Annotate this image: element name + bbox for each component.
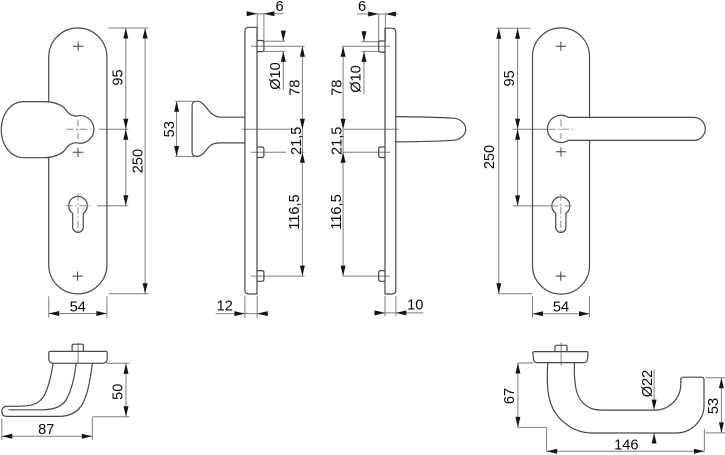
dim 53 ext lines bbox=[706, 377, 725, 379]
lever front bbox=[547, 115, 705, 142]
dim line 50 bbox=[125, 363, 127, 417]
svg-text:250: 250 bbox=[130, 149, 146, 173]
knob crosshair bbox=[67, 128, 91, 130]
dim 87 ext left bbox=[1, 419, 3, 441]
dim 6 ext lines bbox=[256, 14, 258, 41]
dim ext line top bbox=[496, 27, 530, 29]
knob arm outer-right curve bbox=[61, 363, 92, 416]
dim 146 ext right bbox=[703, 429, 705, 451]
svg-text:53: 53 bbox=[706, 398, 722, 414]
svg-text:146: 146 bbox=[614, 437, 638, 453]
knob cap bbox=[49, 351, 107, 363]
spindle center ext bbox=[99, 128, 129, 130]
tab center line top bbox=[251, 45, 305, 47]
chain dim line 78/21.5/116.5 bbox=[301, 46, 303, 276]
screw tab top bbox=[379, 41, 385, 52]
dim line 6 bbox=[357, 13, 398, 15]
svg-text:78: 78 bbox=[288, 80, 304, 96]
screw tab bottom bbox=[379, 271, 385, 282]
dim 53 ext lines bbox=[175, 100, 193, 102]
screw tab top bbox=[257, 41, 264, 52]
svg-text:116,5: 116,5 bbox=[329, 194, 345, 229]
dim 54 ext lines bbox=[532, 296, 534, 317]
dim line 146 bbox=[547, 450, 705, 452]
screw cross mid bbox=[556, 147, 566, 156]
svg-text:Ø22: Ø22 bbox=[640, 370, 656, 398]
plate side bbox=[245, 27, 257, 294]
svg-text:10: 10 bbox=[407, 297, 423, 313]
lever side profile bbox=[396, 117, 466, 142]
svg-text:53: 53 bbox=[162, 121, 178, 137]
knob front bbox=[1, 102, 94, 158]
svg-text:6: 6 bbox=[358, 0, 366, 15]
svg-text:67: 67 bbox=[502, 388, 518, 404]
svg-text:116,5: 116,5 bbox=[287, 194, 303, 229]
chain dim line 78/21.5/116.5 bbox=[342, 46, 344, 276]
dim line 54 bbox=[533, 313, 590, 315]
dim O22 leader bbox=[653, 369, 655, 443]
dim line 95 + chain bbox=[125, 28, 127, 206]
keyhole bbox=[69, 196, 88, 232]
knob arm outer-left curve bbox=[7, 363, 53, 406]
plate front bbox=[533, 28, 590, 294]
dim line 6 bbox=[247, 13, 284, 15]
screw tab bottom bbox=[257, 271, 264, 282]
screw cross top bbox=[556, 42, 566, 51]
lever U handle bbox=[547, 363, 704, 433]
BOTTOMLEFT bbox=[2, 343, 130, 440]
dim ext line bottom bbox=[499, 293, 533, 295]
dim line 250 bbox=[498, 28, 500, 294]
screw cross top bbox=[73, 42, 83, 51]
stem center line bbox=[77, 343, 79, 364]
keyhole crosshair bbox=[551, 205, 574, 207]
arrows bbox=[515, 363, 520, 374]
dim O10 ext lines bbox=[264, 40, 285, 42]
knob side profile bbox=[192, 101, 245, 156]
svg-text:6: 6 bbox=[275, 0, 283, 15]
arrows bbox=[124, 363, 129, 374]
knob arm middle curve bbox=[9, 363, 76, 410]
dim 87 ext right step bbox=[91, 417, 93, 440]
dim ext line bottom bbox=[109, 293, 149, 295]
dim O10 ext lines bbox=[362, 41, 379, 43]
dim 6 ext lines bbox=[378, 14, 380, 41]
dim line 250 bbox=[144, 28, 146, 294]
plate front bbox=[49, 28, 107, 294]
svg-text:21,5: 21,5 bbox=[330, 127, 346, 155]
plate side bbox=[385, 28, 396, 294]
keyhole center ext bbox=[513, 205, 552, 207]
dim 50 ext top bbox=[106, 362, 129, 364]
stem center line bbox=[560, 343, 562, 366]
tab center line bottom bbox=[251, 275, 305, 277]
screw cross bottom bbox=[72, 272, 82, 281]
arrows bbox=[515, 28, 520, 39]
svg-text:87: 87 bbox=[38, 422, 54, 438]
svg-text:95: 95 bbox=[502, 70, 518, 86]
dim line 12 bbox=[216, 313, 269, 315]
arrows bbox=[368, 12, 379, 17]
dim line 67 bbox=[517, 363, 519, 427]
svg-text:Ø10: Ø10 bbox=[349, 65, 365, 93]
dim line 10 bbox=[374, 312, 423, 314]
svg-text:54: 54 bbox=[553, 300, 569, 316]
dim line 53 bbox=[720, 378, 722, 433]
spindle center line bbox=[344, 128, 399, 130]
keyhole crosshair bbox=[66, 205, 91, 207]
tab center line top bbox=[342, 45, 390, 47]
VIEW2 bbox=[162, 0, 305, 318]
dim 67 ext bottom bbox=[518, 426, 547, 428]
svg-text:21,5: 21,5 bbox=[289, 127, 305, 155]
svg-text:12: 12 bbox=[217, 298, 233, 314]
dim 67 ext top bbox=[518, 362, 534, 364]
arrows bbox=[247, 11, 258, 16]
dim line 53 bbox=[176, 101, 178, 156]
arrows bbox=[123, 28, 128, 39]
svg-text:250: 250 bbox=[482, 145, 498, 169]
VIEW4 bbox=[482, 28, 705, 318]
knob stem bbox=[72, 344, 83, 351]
lever crosshair bbox=[549, 128, 575, 130]
keyhole center ext bbox=[97, 205, 128, 207]
svg-text:54: 54 bbox=[70, 299, 86, 315]
knob foot bbox=[2, 406, 60, 416]
tab center line bottom bbox=[343, 275, 390, 277]
BOTTOMRIGHT bbox=[502, 343, 725, 454]
screw tab mid bbox=[379, 147, 385, 158]
lever cap bbox=[533, 352, 588, 363]
dim line O10 bbox=[363, 31, 365, 94]
dim 12 ext lines bbox=[244, 296, 246, 318]
dim 146 ext left step bbox=[546, 427, 548, 451]
svg-text:78: 78 bbox=[330, 80, 346, 96]
dim 50 ext bottom + step bbox=[92, 416, 129, 418]
keyhole bbox=[552, 197, 570, 233]
VIEW1 bbox=[1, 28, 148, 318]
dim line 54 bbox=[49, 313, 107, 315]
dim 10 ext lines bbox=[384, 296, 386, 316]
spindle center ext bbox=[513, 128, 550, 130]
tab center line mid bbox=[251, 151, 305, 153]
svg-text:Ø10: Ø10 bbox=[268, 62, 284, 90]
svg-text:95: 95 bbox=[110, 69, 126, 85]
spindle center line bbox=[242, 128, 297, 130]
VIEW3 bbox=[329, 0, 466, 316]
dim 54 ext lines bbox=[48, 296, 50, 317]
dim line 95 + chain bbox=[517, 28, 519, 206]
screw cross bottom bbox=[556, 272, 566, 281]
tab center line mid bbox=[343, 151, 390, 153]
screw tab mid bbox=[257, 147, 264, 158]
dim line O10 bbox=[282, 30, 284, 90]
dim ext line top bbox=[109, 27, 149, 29]
screw cross mid bbox=[73, 148, 83, 157]
dim line 87 bbox=[2, 435, 93, 437]
lever stem bbox=[555, 345, 567, 351]
svg-text:50: 50 bbox=[111, 384, 127, 400]
